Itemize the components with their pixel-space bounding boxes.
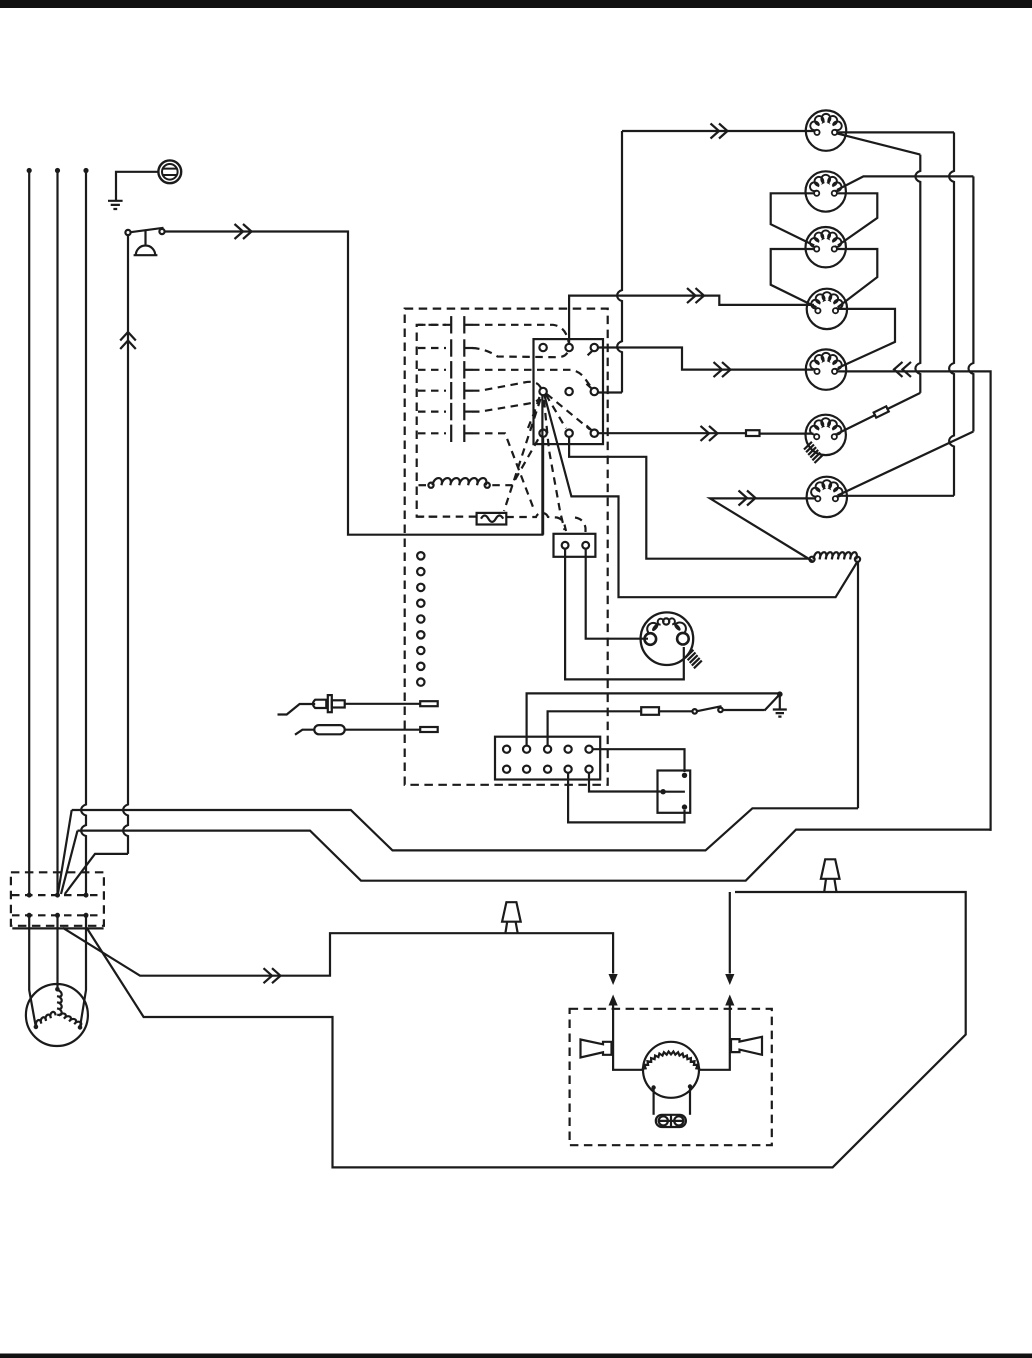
connector X1 base plate <box>12 927 103 929</box>
wire bus C diag to J7 <box>838 432 974 496</box>
switch S2 blade <box>697 706 722 711</box>
inline connector X3 <box>874 406 889 417</box>
switch SW2 pole 5 bar B <box>463 403 465 420</box>
relay K1 <box>658 771 691 813</box>
dashed wire row5 to pin U1-M1 <box>472 399 540 412</box>
switch S2 pivot B <box>718 708 723 713</box>
terminal J9-2 <box>582 542 589 549</box>
switch SW2 pole 2 stub <box>418 347 446 349</box>
ignition coil IGN <box>814 552 857 559</box>
connector chevrons J1 wire <box>711 124 728 139</box>
wire TB1-5T to relay K1 top <box>593 749 685 772</box>
ground GND1 <box>108 201 123 209</box>
terminal U1-M2 <box>565 388 572 395</box>
wire TB1-4B to relay K1 bottom <box>568 773 684 823</box>
horn H2 <box>731 1037 762 1055</box>
connector J1 <box>806 110 846 150</box>
terminal grommet <box>158 160 181 183</box>
wire J1 to bus B <box>837 131 954 133</box>
wire J9-1 to distributor right <box>565 549 684 680</box>
connector J5 <box>806 349 846 389</box>
dashed wire fuse to block J9 <box>506 513 566 531</box>
dashed wire row1 to pin U1-T2 <box>472 325 569 343</box>
wire link J2-J3 <box>771 193 878 245</box>
dashed wire choke left <box>419 484 427 486</box>
sender probe P1 <box>278 704 316 715</box>
wire J7 to coil IGN <box>710 498 815 561</box>
wire to J1 <box>622 130 815 132</box>
conductor L1 <box>27 168 32 173</box>
switch SW2 pole 1 stub <box>418 324 446 326</box>
switch S1 pivot B <box>159 229 164 234</box>
wire TB1-5B to relay K1 left <box>589 773 661 792</box>
motor M1 winding left <box>34 1011 56 1026</box>
wire J1 to bus A <box>837 133 920 154</box>
wire X1 to motor c <box>80 915 86 1027</box>
wire node N1 stub <box>765 694 780 710</box>
connector chevrons on S1 wire <box>235 224 252 239</box>
terminal TB1-4B <box>565 766 572 773</box>
wire X1 to horn circuit 1 <box>63 928 613 976</box>
switch SW2 pole 5 bar A <box>450 403 452 420</box>
connector chevrons J5 wire <box>714 362 731 377</box>
wire X1 to motor b <box>56 915 58 988</box>
connector X1 row1 (dashed) <box>12 894 102 896</box>
wire bus B to J7 <box>838 495 954 497</box>
dashed wire row6 <box>472 433 533 507</box>
terminal U1-T3 <box>591 344 598 351</box>
terminal U1-B3 <box>591 430 598 437</box>
switch SW2 pole 6 bar B <box>463 425 465 442</box>
terminal TB1-4T <box>565 746 572 753</box>
junction X1-3A <box>84 893 89 898</box>
relay K1 contact top <box>682 773 687 778</box>
switch SW2 pole 4 bar B <box>463 382 465 399</box>
connector chevrons J7 wire <box>739 491 756 506</box>
connector arrow down 2 <box>725 974 734 985</box>
connector X1 row2 (dashed) <box>12 914 102 916</box>
ignition switch box (dashed) <box>417 325 451 517</box>
dashed wire fan T1-c <box>528 397 540 428</box>
wire L1-drop diag <box>58 810 72 894</box>
wire J4 to J5 <box>838 309 895 368</box>
wire TB1-2T to ground node <box>527 693 780 745</box>
contact tick U1-M3 <box>587 384 592 389</box>
terminal TB1-1T <box>503 746 510 753</box>
junction X1-3B <box>84 913 89 918</box>
wire J5 to bus D <box>837 371 990 831</box>
compressor COMP <box>643 1042 699 1098</box>
junction X1-2A <box>55 893 60 898</box>
wire U1-M1 diagonal <box>545 396 858 598</box>
contact tick U1-B3 <box>587 426 592 431</box>
terminal U1-T1 <box>539 344 546 351</box>
junction X1-2B <box>55 913 60 918</box>
fuse F1 <box>477 513 507 525</box>
dashed contact U1 M1-B3 <box>547 394 591 430</box>
switch S1 actuator dome <box>134 231 158 256</box>
wire U1-T3 to J5 <box>598 348 814 370</box>
terminal strip TB1 <box>495 737 600 780</box>
horn H1 <box>581 1040 612 1058</box>
bus A vertical <box>915 155 920 393</box>
switch SW2 pole 3 stub <box>418 369 446 371</box>
dashed wire row2 <box>472 348 568 357</box>
connector arrow down 1 <box>609 974 618 985</box>
relay K1 armature <box>663 791 685 793</box>
bus C vertical <box>969 176 974 431</box>
connector arrow up 1 <box>609 995 618 1006</box>
terminal TB1-5T <box>585 746 592 753</box>
probe P2 terminal <box>420 727 438 732</box>
switch SW2 pole 1 bar A <box>450 316 452 333</box>
dashed wire fan T1-a <box>504 399 541 511</box>
connector arrow up 2 <box>725 995 734 1006</box>
conductor L3 <box>83 168 88 173</box>
inline connector X4 <box>641 707 659 715</box>
connector chevrons J6 wire <box>701 426 718 441</box>
switch SW2 pole 6 stub <box>418 432 446 434</box>
bus B vertical <box>949 132 954 495</box>
connector box X1 (dashed) <box>11 872 104 926</box>
conductor L2 <box>55 168 60 173</box>
terminal column J8 <box>417 552 424 559</box>
dashed wire box-bottom to fuse <box>417 515 477 517</box>
connector J6 <box>806 415 846 455</box>
connector chevrons on L4 <box>120 332 136 349</box>
relay block U1 <box>534 339 604 444</box>
terminal TB1-2B <box>523 766 530 773</box>
inline connector X2 <box>746 430 760 436</box>
sender probe P2 <box>295 730 314 735</box>
node N1 <box>777 691 783 697</box>
terminal U1-T2 <box>565 344 572 351</box>
connector J3 <box>806 227 846 267</box>
wire J1 feed vertical <box>617 131 622 393</box>
wire U1-B2 to coil left <box>569 437 809 559</box>
terminal U1-M3 <box>591 388 598 395</box>
capacitor CAP <box>656 1115 686 1127</box>
wire bus A to J6 <box>837 393 921 434</box>
wire J2 to bus C <box>837 176 974 190</box>
ground GND2 <box>773 710 787 717</box>
connector J2 <box>806 171 846 211</box>
terminal TB1-1B <box>503 766 510 773</box>
motor M1 winding up <box>57 990 62 1015</box>
choke coil CH1 <box>433 478 487 485</box>
dashed contact U1 M1-B2 <box>546 395 566 429</box>
switch SW2 pole 1 bar B <box>463 316 465 333</box>
dashed wire choke right to U1-B1 <box>492 436 540 485</box>
terminal TB1-3T <box>544 746 551 753</box>
connector chevrons horn wire <box>264 968 281 983</box>
switch SW2 pole 2 bar A <box>450 339 452 356</box>
terminal TB1-3B <box>544 766 551 773</box>
compressor lead left <box>652 1089 654 1115</box>
compressor box (dashed) <box>570 1009 772 1145</box>
relay K1 contact bottom <box>682 804 687 809</box>
wire X1 to motor a <box>29 915 36 1026</box>
terminal U1-M1 <box>539 388 546 395</box>
switch SW2 pole 6 bar A <box>450 425 452 442</box>
connector chevrons J5 right <box>894 362 911 377</box>
switch S1 pivot A <box>125 230 130 235</box>
switch SW2 pole 3 bar A <box>450 361 452 378</box>
switch SW2 pole 2 bar B <box>463 339 465 356</box>
terminal TB1-2T <box>523 746 530 753</box>
wire L2-drop diag <box>61 831 78 894</box>
terminal U1-B2 <box>565 430 572 437</box>
wire grommet to ground <box>116 172 158 200</box>
distributor DIST <box>641 612 694 665</box>
wire U1-B3 to J6 <box>598 432 813 435</box>
terminal TB1-5B <box>585 766 592 773</box>
connector J7 <box>807 477 847 517</box>
connector J4 <box>807 289 847 329</box>
dashed wire to block J9 pin2 <box>575 518 586 533</box>
terminal U1-B1 <box>539 430 546 437</box>
motor M1 <box>26 984 88 1046</box>
junction X1-1A <box>27 893 32 898</box>
wire link J3-J4 <box>771 249 878 307</box>
wire coil to highway1 <box>857 562 859 808</box>
switch SW2 pole 4 bar A <box>450 382 452 399</box>
dashed wire fan T1-b <box>544 400 565 530</box>
wire U1-B1 down <box>542 437 544 535</box>
dashed wire row3 to pin U1-M3 <box>472 370 592 389</box>
ground hatch J6 <box>804 442 822 463</box>
wire L4-drop diag <box>65 854 128 894</box>
plug symbol PL2 <box>821 859 840 892</box>
plug symbol PL1 <box>502 902 521 933</box>
connector chevrons J4 wire <box>687 288 704 303</box>
switch SW2 pole 4 stub <box>418 390 446 392</box>
wire U1-T2 to J4 <box>569 296 814 344</box>
probe P1 terminal <box>420 701 438 706</box>
connector block J9 <box>554 534 596 557</box>
control box (dashed) <box>405 309 608 785</box>
conductor L4 from S1 <box>123 235 128 854</box>
wire highway2 <box>78 830 991 881</box>
switch S2 pivot A <box>692 709 697 714</box>
compressor lead right <box>689 1088 691 1115</box>
wire S1 to node T1 <box>165 232 543 535</box>
switch SW2 pole 5 stub <box>418 411 446 413</box>
dashed wire row4 to pin U1-M1 <box>472 382 543 391</box>
wire drop to compressor right <box>729 892 731 974</box>
junction X1-1B <box>27 913 32 918</box>
ground hatch distributor <box>686 650 702 669</box>
wire X1 to horn circuit 2 <box>87 892 966 1167</box>
wire J9-2 to distributor left <box>586 549 648 639</box>
relay K1 contact left <box>660 789 665 794</box>
wire highway1 <box>72 808 858 850</box>
motor M1 winding right <box>59 1012 82 1027</box>
switch SW2 pole 3 bar B <box>463 361 465 378</box>
terminal J9-1 <box>562 542 569 549</box>
wire TB1-3T switch branch <box>548 710 765 746</box>
switch S1 blade <box>131 228 164 232</box>
contact tick U1-T3 <box>588 351 593 356</box>
